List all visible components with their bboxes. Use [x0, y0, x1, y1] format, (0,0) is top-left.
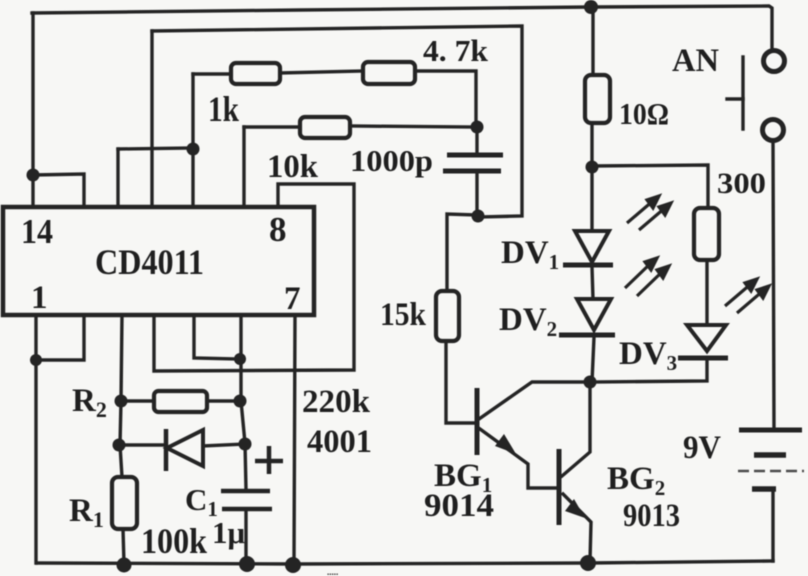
- svg-text:8: 8: [269, 210, 287, 249]
- svg-text:.....: .....: [327, 567, 338, 576]
- svg-text:1000p: 1000p: [350, 143, 433, 178]
- svg-text:9013: 9013: [623, 498, 680, 534]
- svg-text:220k: 220k: [302, 384, 371, 420]
- svg-text:10k: 10k: [267, 149, 319, 185]
- svg-text:R1: R1: [69, 493, 104, 532]
- svg-text:1k: 1k: [208, 89, 239, 129]
- svg-text:9V: 9V: [683, 430, 721, 466]
- svg-text:DV2: DV2: [499, 302, 557, 341]
- svg-text:100k: 100k: [141, 521, 207, 561]
- svg-text:DV1: DV1: [501, 235, 559, 274]
- svg-text:1: 1: [31, 280, 48, 316]
- svg-text:10Ω: 10Ω: [619, 96, 669, 131]
- svg-text:4. 7k: 4. 7k: [423, 33, 489, 68]
- svg-text:7: 7: [284, 281, 301, 317]
- svg-text:4001: 4001: [307, 424, 372, 460]
- svg-text:300: 300: [717, 167, 766, 200]
- svg-text:1μ: 1μ: [212, 515, 246, 550]
- svg-text:CD4011: CD4011: [95, 242, 204, 282]
- svg-text:14: 14: [21, 212, 53, 251]
- svg-text:R2: R2: [72, 383, 107, 422]
- svg-text:AN: AN: [672, 43, 719, 79]
- svg-text:9014: 9014: [424, 488, 494, 524]
- svg-text:BG2: BG2: [607, 461, 665, 500]
- svg-text:DV3: DV3: [619, 336, 677, 375]
- svg-text:15k: 15k: [380, 297, 427, 333]
